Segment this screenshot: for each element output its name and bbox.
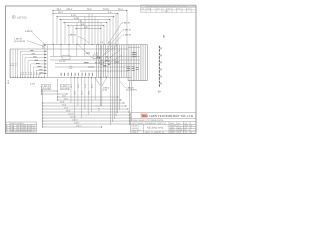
- tolerance symbol circle: [12, 15, 15, 18]
- svg-text:(2.0 DEEP): (2.0 DEEP): [126, 89, 137, 92]
- svg-text:(2.0 DEEP): (2.0 DEEP): [14, 40, 25, 43]
- left nested arrows: [45, 51, 46, 74]
- svg-text:2-Ø0.75: 2-Ø0.75: [123, 29, 132, 32]
- svg-text:(2.0): (2.0): [103, 89, 108, 92]
- svg-text:25.4: 25.4: [118, 8, 123, 11]
- svg-text:Rv: Rv: [188, 8, 190, 11]
- svg-text:76.2: 76.2: [87, 8, 92, 11]
- svg-text:TAKS TECHNOLOGY CO.,LTD: TAKS TECHNOLOGY CO.,LTD: [149, 114, 194, 118]
- svg-text:No: No: [142, 8, 144, 11]
- svg-text:(2.0 DP): (2.0 DP): [61, 87, 69, 90]
- title block row texts: [132, 119, 194, 134]
- top dimension chain: [53, 11, 127, 29]
- mid hole callout with arc leader: [68, 34, 89, 44]
- isolated datum mark: [163, 36, 165, 39]
- left rotated labels: [10, 62, 42, 75]
- left nested dimension stack: [21, 51, 48, 77]
- svg-text:152.4: 152.4: [76, 125, 82, 128]
- svg-text:TKD: TKD: [141, 114, 148, 118]
- svg-text:A4: A4: [178, 122, 180, 125]
- central vertical conductor cluster: [97, 45, 127, 78]
- paper background: [0, 0, 200, 140]
- svg-text:1: 1: [142, 10, 143, 13]
- svg-text:127.0: 127.0: [72, 119, 78, 122]
- svg-text:1: 1: [191, 126, 192, 129]
- svg-text:Ø+: Ø+: [158, 91, 162, 94]
- left vertical dim lines: [10, 45, 47, 78]
- svg-text:KB-2081-A-01: KB-2081-A-01: [147, 127, 164, 130]
- right hole callouts above part: [104, 22, 132, 55]
- below-part callouts: [30, 82, 69, 90]
- top dim arrows: [53, 10, 128, 29]
- svg-text:HOLE SYMBOL: HOLE SYMBOL: [11, 122, 24, 125]
- svg-text:7 Tech: 7 Tech: [163, 10, 169, 13]
- right pad column: [128, 45, 146, 81]
- central feature cluster: [60, 45, 122, 69]
- bottom edge arrow ticks: [10, 77, 107, 78]
- labels above part top edge: [100, 41, 112, 44]
- svg-text:1-Ø0.75: 1-Ø0.75: [68, 34, 77, 37]
- svg-text:PART NAME: MEMBRANE SWITCH: PART NAME: MEMBRANE SWITCH: [132, 122, 166, 125]
- top extension lines: [53, 11, 127, 45]
- svg-text:114.3: 114.3: [70, 116, 76, 119]
- top edge arrow ticks: [53, 44, 117, 45]
- svg-text:2-Ø0.75: 2-Ø0.75: [122, 22, 131, 25]
- mid lower extension lines: [41, 78, 95, 122]
- svg-text:A-0.6: A-0.6: [30, 82, 36, 85]
- bottom tail: [95, 78, 131, 126]
- hole table diagonal slashes: [11, 130, 31, 132]
- svg-text:UNIT: UNIT: [145, 131, 150, 134]
- drawing frame: [6, 6, 197, 134]
- part outline: [10, 45, 147, 81]
- svg-text:(2.0 DP): (2.0 DP): [42, 87, 50, 90]
- svg-text:SCALE: SCALE: [132, 131, 139, 134]
- svg-text:APPR: APPR: [170, 131, 176, 134]
- company logo: [141, 113, 149, 118]
- rotated labels on lower extensions: [70, 83, 94, 95]
- bottom dim labels: [60, 95, 82, 128]
- tail callouts: [103, 81, 137, 92]
- right vertical dim label column: [158, 46, 162, 94]
- top dim labels: [57, 8, 124, 29]
- top material table: [141, 5, 197, 13]
- svg-text:DRAW NAME: KTP-20868-01/02A: DRAW NAME: KTP-20868-01/02A: [132, 119, 164, 122]
- right pad labels: [127, 52, 138, 70]
- top table text: [142, 5, 190, 13]
- svg-text:139.7: 139.7: [74, 122, 80, 125]
- svg-text:Qty: Qty: [168, 8, 171, 11]
- funnel into tail: [95, 78, 106, 86]
- bottom-left hole table: [6, 122, 37, 132]
- staircase line labels: [30, 50, 44, 73]
- svg-text:203.2: 203.2: [67, 8, 73, 11]
- svg-text:DWG: DWG: [170, 122, 175, 125]
- svg-text:SHEET: SHEET: [154, 131, 161, 134]
- svg-text:4-Ø0.9: 4-Ø0.9: [25, 30, 33, 33]
- svg-text:1/1: 1/1: [185, 131, 188, 134]
- svg-text:101.6: 101.6: [68, 113, 74, 116]
- interior label dashes above bottom edge: [61, 73, 93, 76]
- svg-text:±(0.05): ±(0.05): [17, 16, 26, 20]
- svg-text:Assy: Assy: [147, 8, 151, 11]
- bottom dimension chain: [41, 90, 130, 127]
- hole callout top-left: [14, 30, 46, 47]
- hole table text: [7, 122, 33, 133]
- inner horizontal details: [50, 57, 140, 72]
- svg-text:1-Ø0.75: 1-Ø0.75: [123, 34, 132, 37]
- svg-text:25.4: 25.4: [58, 11, 63, 14]
- svg-text:Rm: Rm: [178, 8, 181, 11]
- title block: [131, 113, 197, 134]
- bottom dim arrows: [41, 90, 130, 127]
- part interior key column lines: [53, 45, 84, 57]
